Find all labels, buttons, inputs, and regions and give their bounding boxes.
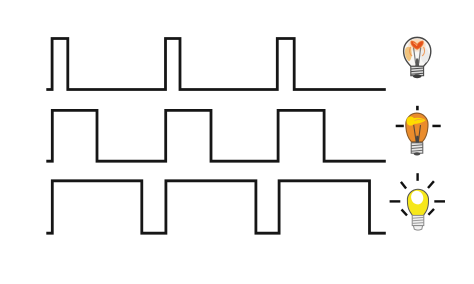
- bulb 3 ray: upper-left: [401, 182, 406, 189]
- bulb 3 ray: upper-right: [428, 181, 434, 188]
- bulb 3 ray: left: [390, 200, 401, 202]
- bulb 3: screw base: [412, 215, 424, 230]
- bulb 2 (half lit): orange glass envelope: [406, 113, 428, 142]
- bulb 3 ray: lower-left: [402, 210, 408, 216]
- bulb 3 (fully lit): yellow glass envelope: [407, 189, 428, 215]
- bulb 1: warm reflection patch (left): [405, 47, 412, 62]
- waveform 2: medium duty-cycle PWM trace: [46, 110, 386, 161]
- bulb 1: screw base: [411, 66, 424, 78]
- bulb 3 ray: top: [416, 173, 418, 181]
- bulb 3: white highlight: [409, 189, 425, 206]
- bulb 1 (off / dim): glass envelope: [404, 37, 431, 66]
- bulb 2 ray: top: [416, 106, 419, 111]
- bulb 2 ray: left: [396, 125, 404, 128]
- bulb 1: support wires: [414, 48, 421, 64]
- bulb 1: filament (red-orange): [410, 41, 425, 56]
- bulb 2 ray: right: [432, 125, 440, 128]
- bulb 2: screw base: [411, 143, 423, 156]
- bulb 1: warm glow tint in upper glass: [408, 39, 426, 53]
- bulb 2: support wires: [414, 125, 421, 141]
- bulb 3 ray: right: [434, 200, 445, 202]
- bulb 3 ray: lower-right: [428, 209, 434, 215]
- bulb 1: glass stem in neck: [415, 59, 419, 67]
- waveform 1: low duty-cycle PWM trace: [46, 39, 386, 90]
- waveform 3: high duty-cycle PWM trace: [46, 181, 386, 233]
- bulb 2: glass stem in neck: [416, 136, 420, 143]
- bulb 2: yellow filament glow: [406, 116, 425, 125]
